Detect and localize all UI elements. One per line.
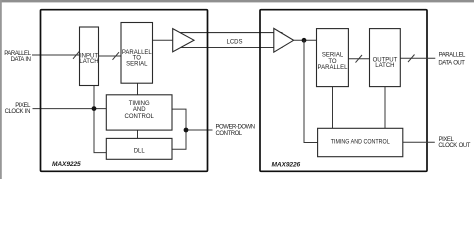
wire: receiver output to serial-to-parallel [294, 39, 317, 41]
bus slash between input latch and parallel-to-serial [113, 52, 120, 60]
MAX9225 outer box [41, 10, 208, 172]
svg-text:LATCH: LATCH [79, 59, 98, 65]
bus slash on parallel data in wire [73, 51, 80, 59]
wire: parallel data out [400, 57, 435, 59]
wire: pixel clock out [403, 141, 435, 143]
svg-text:DLL: DLL [134, 149, 146, 155]
wire: LCDS differential line lower [178, 47, 283, 49]
wire: receiver output down to timing-and-control [304, 40, 318, 142]
svg-text:DATA IN: DATA IN [11, 57, 31, 63]
wire: timing-and-control right stub [172, 109, 186, 149]
junction node: receiver output [302, 38, 307, 43]
svg-text:PARALLEL: PARALLEL [318, 65, 349, 71]
svg-text:PARALLEL: PARALLEL [4, 51, 31, 57]
svg-text:AND: AND [133, 107, 146, 113]
wire: LCDS differential line upper [178, 32, 283, 34]
svg-text:TIMING: TIMING [129, 101, 150, 107]
wire: serial-to-parallel to output latch [348, 58, 369, 60]
bus slash on parallel data out wire [408, 55, 415, 63]
svg-text:PARALLEL: PARALLEL [439, 52, 466, 58]
svg-text:SERIAL: SERIAL [126, 62, 148, 68]
wire: serial-to-parallel bottom to timing-and-control [332, 87, 334, 129]
svg-text:DATA OUT: DATA OUT [438, 60, 465, 66]
svg-text:CONTROL: CONTROL [125, 114, 155, 120]
svg-text:TIMING AND CONTROL: TIMING AND CONTROL [331, 140, 391, 146]
bus slash between serial-to-parallel and output latch [356, 55, 363, 63]
left grey frame edge [0, 0, 2, 179]
svg-text:MAX9225: MAX9225 [52, 161, 81, 168]
wire: pixel clock in [33, 108, 107, 110]
input latch box U? [80, 27, 99, 86]
output latch box [370, 29, 401, 87]
timing and control box (MAX9225) [106, 95, 172, 130]
wire: timing-and-control to DLL [137, 130, 139, 138]
svg-text:CLOCK IN: CLOCK IN [5, 109, 30, 115]
svg-text:LCDS: LCDS [227, 39, 243, 45]
wire: input latch to parallel-to-serial [99, 55, 122, 57]
svg-text:TO: TO [133, 55, 142, 61]
wire: parallel-to-serial bottom to timing-and-control [137, 83, 139, 95]
wire: parallel-to-serial to LVDS driver [153, 39, 173, 41]
wire: parallel data in [32, 54, 80, 56]
wire: power-down control [186, 129, 213, 131]
svg-text:CLOCK OUT: CLOCK OUT [438, 143, 470, 149]
parallel-to-serial box [121, 23, 153, 84]
timing and control box (MAX9226) [318, 128, 403, 156]
svg-text:MAX9226: MAX9226 [272, 161, 301, 168]
svg-text:POWER-DOWN: POWER-DOWN [216, 124, 255, 130]
svg-text:CONTROL: CONTROL [216, 131, 243, 137]
svg-text:SERIAL: SERIAL [322, 53, 344, 59]
wire: input latch bottom down to DLL row [94, 86, 106, 153]
MAX9226 outer box [260, 10, 427, 172]
junction node: pixel clock / input latch / DLL [92, 106, 97, 111]
DLL box [106, 138, 172, 159]
svg-text:LATCH: LATCH [375, 63, 394, 69]
buffer amplifier: LVDS driver (left triangle) [173, 29, 194, 52]
svg-text:TO: TO [328, 59, 337, 65]
svg-text:PIXEL: PIXEL [439, 137, 455, 143]
serial-to-parallel box [317, 29, 349, 87]
junction node: power-down control [184, 128, 189, 133]
buffer amplifier: LVDS receiver (right triangle) [274, 28, 294, 52]
wire: output latch bottom to timing-and-control [384, 87, 386, 129]
top grey frame edge [0, 0, 474, 2]
